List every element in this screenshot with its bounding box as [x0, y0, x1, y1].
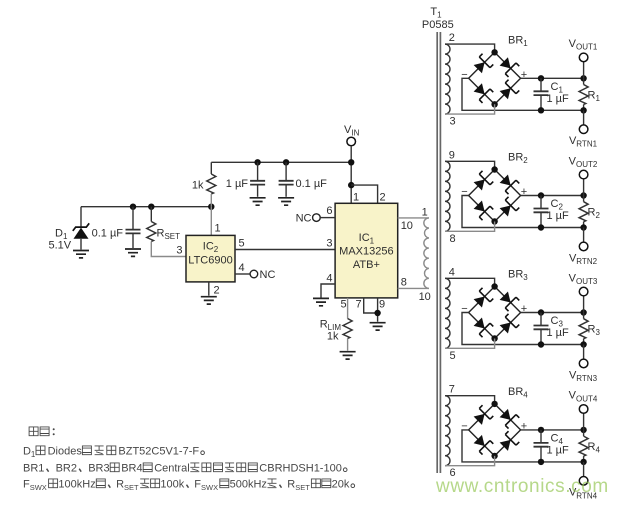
wire: VRTN4 terminal to return rail: [583, 462, 585, 477]
node: return rail to C2: [538, 224, 544, 230]
capacitor C4 1uF: [534, 430, 549, 462]
transformer T1 core: [437, 32, 440, 473]
svg-text:NC: NC: [260, 269, 276, 281]
terminal VOUT4: [579, 405, 588, 414]
node: return rail to R4 / VRTN4: [580, 459, 586, 465]
terminal VOUT3: [579, 287, 588, 296]
resistor R3: [579, 313, 588, 345]
terminal VIN: [347, 137, 356, 146]
svg-text:Central: Central: [154, 463, 189, 475]
wire: bridge BR2 minus to return rail: [462, 196, 584, 228]
resistor R2: [579, 196, 588, 228]
terminal VOUT2: [579, 170, 588, 179]
node: plus rail to C2: [538, 192, 544, 198]
svg-text:9: 9: [379, 299, 385, 311]
node: plus rail to R3 / VOUT3: [580, 309, 586, 315]
wire: winding 4 top to bridge BR4 AC top: [445, 396, 495, 404]
svg-text:7: 7: [356, 299, 362, 311]
node: plus rail to C4: [538, 427, 544, 433]
node: VIN / rail junction: [348, 159, 354, 165]
ground for D1: [73, 251, 89, 258]
wire: bridge BR3 minus to return rail: [462, 313, 584, 345]
H-bridge driver IC1 MAX13256: [335, 203, 398, 298]
wire: winding 2 top to bridge BR2 AC top: [445, 161, 495, 169]
wire: IC1 pin 10 to transformer primary pin 1: [398, 217, 429, 219]
node: pin 7 / pin 9 junction: [374, 310, 380, 316]
terminal VRTN1: [579, 125, 588, 134]
svg-text:3: 3: [326, 238, 332, 250]
wire: VRTN1 terminal to return rail: [583, 110, 585, 125]
node: plus rail to R4 / VOUT4: [580, 427, 586, 433]
terminal VRTN2: [579, 242, 588, 251]
wire: bridge BR4 AC bottom to winding pin 6: [445, 456, 495, 466]
svg-text:8: 8: [449, 233, 455, 245]
wire: bridge BR1 minus to return rail: [462, 78, 584, 110]
svg-text:1: 1: [31, 450, 36, 459]
transformer T1 primary winding: [424, 218, 429, 289]
svg-text:ATB+: ATB+: [353, 259, 380, 271]
wire: bridge BR2 AC bottom to winding pin 8: [445, 222, 495, 232]
svg-text:SET: SET: [295, 483, 310, 492]
node: bridge BR4 AC top: [491, 401, 497, 407]
svg-text:0.1 µF: 0.1 µF: [92, 228, 124, 240]
svg-text:2: 2: [380, 192, 386, 204]
svg-text:10: 10: [419, 291, 431, 303]
svg-text:+: +: [521, 303, 527, 315]
node: return rail to C4: [538, 459, 544, 465]
svg-text:Diodes: Diodes: [48, 446, 83, 458]
ground for 0.1uF cap: [125, 249, 141, 256]
node: bridge BR3 AC bottom: [491, 335, 497, 341]
node: rail / 1k / IC2 pin1 junction: [208, 204, 214, 210]
wire: winding 1 top to bridge BR1 AC top: [445, 44, 495, 52]
svg-text:P0585: P0585: [422, 19, 454, 31]
svg-text:100k: 100k: [160, 479, 184, 491]
svg-text:2: 2: [449, 32, 455, 44]
svg-text:BR3: BR3: [88, 463, 109, 475]
bridge rectifier BR4: [469, 404, 521, 456]
svg-text:3: 3: [176, 245, 182, 257]
transformer T1 secondary winding 2 (pins 9,8): [445, 161, 450, 231]
svg-text:BR1: BR1: [23, 463, 44, 475]
node: rail to 1uF cap: [254, 159, 260, 165]
node: return rail to C3: [538, 341, 544, 347]
wire: IC2 pin 4 to NC: [235, 273, 250, 275]
svg-text:3: 3: [449, 116, 455, 128]
svg-text:NC: NC: [296, 213, 312, 225]
ground for 0.1uF cap (top): [278, 198, 294, 205]
svg-text:7: 7: [449, 384, 455, 396]
wire: IC1 pin 4 to ground: [321, 284, 335, 298]
node: plus rail to R1 / VOUT1: [580, 75, 586, 81]
svg-text:LTC6900: LTC6900: [188, 255, 232, 267]
note line 4: frequency note: [23, 479, 355, 493]
wire: NC to IC1 pin 6: [320, 217, 335, 219]
zener diode D1: [73, 207, 89, 250]
wire: winding 3 top to bridge BR3 AC top: [445, 278, 495, 286]
wire: IC1 pin 8 to transformer primary pin 10: [398, 287, 429, 289]
node: bridge BR4 AC bottom: [491, 453, 497, 459]
wire: bridge BR1 plus output rail: [521, 77, 584, 79]
transformer T1 secondary winding 4 (pins 7,6): [445, 396, 450, 466]
ground for 1uF cap: [250, 198, 266, 205]
note line 1: zhu yi: [29, 427, 55, 436]
terminal VRTN4: [579, 477, 588, 486]
svg-text:10: 10: [401, 220, 413, 232]
resistor R4: [579, 430, 588, 462]
node: return rail to R1 / VRTN1: [580, 107, 586, 113]
capacitor C2 1uF: [534, 196, 549, 228]
wire: IC2 pin 2 to ground: [208, 282, 210, 296]
capacitor 1uF (top): [250, 162, 265, 197]
node: rail to 0.1uF cap (top): [283, 159, 289, 165]
wire: bridge BR2 plus output rail: [521, 195, 584, 197]
wire: VOUT1 terminal to plus rail: [583, 62, 585, 79]
wire: bridge BR4 plus output rail: [521, 429, 584, 431]
wire: branch to IC1 pin 2: [351, 185, 377, 203]
resistor RSET: [147, 207, 186, 257]
node: bridge BR3 AC top: [491, 283, 497, 289]
svg-text:500kHz: 500kHz: [230, 479, 267, 491]
svg-text:BR2: BR2: [56, 463, 77, 475]
ground for IC2 pin 2: [201, 297, 217, 304]
node: plus rail to R2 / VOUT2: [580, 192, 586, 198]
wire: VRTN3 terminal to return rail: [583, 345, 585, 360]
svg-text:1 µF: 1 µF: [547, 444, 570, 456]
svg-text:1k: 1k: [327, 331, 339, 343]
note line 2: D1 part number: [23, 446, 204, 460]
ground for IC1 pins 7,9: [370, 323, 386, 330]
svg-text:1 µF: 1 µF: [547, 210, 570, 222]
terminal VRTN3: [579, 359, 588, 368]
svg-text:R: R: [116, 479, 124, 491]
wire: VOUT3 terminal to plus rail: [583, 296, 585, 313]
resistor RLIM 1k: [343, 319, 352, 339]
ground for RLIM: [340, 352, 356, 359]
NC terminal at IC1 pin 6: [313, 214, 321, 222]
capacitor 0.1uF (left): [126, 207, 141, 248]
resistor R1: [579, 78, 588, 110]
svg-text:1 µF: 1 µF: [547, 93, 570, 105]
svg-text:100kHz: 100kHz: [58, 479, 95, 491]
wire: VOUT2 terminal to plus rail: [583, 179, 585, 196]
node: bridge BR1 AC top: [491, 49, 497, 55]
svg-text:6: 6: [326, 205, 332, 217]
ground for IC1 pin 4: [313, 298, 329, 305]
svg-text:5: 5: [341, 299, 347, 311]
node: plus rail to C3: [538, 309, 544, 315]
NC terminal at IC2 pin 4: [250, 270, 258, 278]
svg-text:2: 2: [214, 285, 220, 297]
svg-text:CBRHDSH1-100: CBRHDSH1-100: [259, 463, 342, 475]
svg-text:5.1V: 5.1V: [49, 240, 72, 252]
svg-text:SWX: SWX: [30, 483, 47, 492]
terminal VOUT1: [579, 53, 588, 62]
node: rail to RSET: [148, 204, 154, 210]
svg-text:8: 8: [401, 277, 407, 289]
capacitor 0.1uF (top): [279, 162, 294, 197]
bridge rectifier BR2: [469, 170, 521, 222]
wire: VRTN2 terminal to return rail: [583, 228, 585, 243]
svg-text:R: R: [287, 479, 295, 491]
svg-text:D: D: [23, 446, 31, 458]
svg-text:0.1 µF: 0.1 µF: [296, 178, 328, 190]
wire: VOUT4 terminal to plus rail: [583, 413, 585, 430]
transformer T1 secondary winding 1 (pins 2,3): [445, 44, 450, 114]
resistor 1k (top): [207, 162, 216, 206]
wire: bridge BR1 AC bottom to winding pin 3: [445, 104, 495, 114]
wire: bridge BR3 AC bottom to winding pin 5: [445, 339, 495, 349]
wire: left supply rail from D1 to IC2 pin 1 node: [81, 206, 211, 208]
node: plus rail to C1: [538, 75, 544, 81]
svg-text:SWX: SWX: [201, 483, 218, 492]
note line 3: bridge part number: [23, 463, 347, 475]
node: return rail to R3 / VRTN3: [580, 341, 586, 347]
svg-text:1: 1: [353, 192, 359, 204]
transformer T1 secondary winding 3 (pins 4,5): [445, 278, 450, 348]
svg-text:1: 1: [215, 223, 221, 235]
wire: VIN rail to 1k and bypass caps: [211, 161, 351, 163]
svg-text:www.cntronics.com: www.cntronics.com: [435, 476, 609, 497]
capacitor C3 1uF: [534, 313, 549, 345]
svg-text:1: 1: [422, 207, 428, 219]
wire: IC1 pin 9 to ground: [377, 298, 379, 322]
svg-text:5: 5: [239, 238, 245, 250]
node: return rail to C1: [538, 107, 544, 113]
svg-text:20k: 20k: [332, 479, 350, 491]
svg-text:1 µF: 1 µF: [226, 178, 249, 190]
bridge rectifier BR1: [469, 52, 521, 104]
svg-text:BR4: BR4: [121, 463, 142, 475]
wire: VIN down to IC1 pin 1: [350, 146, 352, 204]
svg-text:SET: SET: [124, 483, 139, 492]
op-amp/oscillator IC2 LTC6900: [186, 235, 235, 282]
svg-text:4: 4: [239, 262, 245, 274]
wire: IC2 pin 5 to IC1 pin 3: [235, 249, 335, 251]
node: bridge BR1 AC bottom: [491, 101, 497, 107]
svg-text:4: 4: [326, 273, 332, 285]
svg-text:4: 4: [449, 266, 455, 278]
svg-text:+: +: [521, 420, 527, 432]
node: branch to IC1 pin 2: [348, 182, 354, 188]
node: rail to 0.1uF cap: [130, 204, 136, 210]
wire: bridge BR3 plus output rail: [521, 312, 584, 314]
svg-text:MAX13256: MAX13256: [339, 246, 393, 258]
svg-text:BZT52C5V1-7-F: BZT52C5V1-7-F: [118, 446, 199, 458]
svg-text:5: 5: [449, 350, 455, 362]
svg-text:1 µF: 1 µF: [547, 327, 570, 339]
svg-text:1k: 1k: [192, 180, 204, 192]
wire: IC1 pin 7 to pin 9 node: [364, 298, 378, 313]
wire: bridge BR4 minus to return rail: [462, 430, 584, 462]
wire: IC1 pin 5 to RLIM: [347, 298, 349, 319]
capacitor C1 1uF: [534, 78, 549, 110]
node: bridge BR2 AC top: [491, 166, 497, 172]
node: bridge BR2 AC bottom: [491, 218, 497, 224]
wire: IC2 pin 1 to supply node: [210, 207, 212, 236]
svg-text:9: 9: [449, 149, 455, 161]
node: return rail to R2 / VRTN2: [580, 224, 586, 230]
bridge rectifier BR3: [469, 287, 521, 339]
